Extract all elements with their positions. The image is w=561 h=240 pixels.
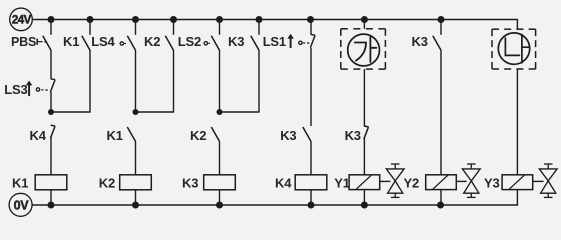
svg-text:24V: 24V bbox=[12, 15, 32, 27]
node G1 junction on 24V rail bbox=[307, 16, 314, 23]
limit switch LS2 NO contact bbox=[211, 36, 219, 51]
limit switch LS3 actuation arrow bbox=[26, 81, 32, 86]
relay contact K2 NO bbox=[211, 127, 219, 142]
cylinder NA indicator circle bbox=[498, 33, 529, 64]
wire K1 contact to K2 coil bbox=[135, 142, 137, 175]
wire GA box to K3 contact bbox=[363, 69, 365, 126]
wire NA box to Y3 solenoid bbox=[516, 69, 518, 175]
limit switch LS1 actuation arrow bbox=[287, 34, 293, 39]
cylinder NA hangul glyph bbox=[505, 35, 529, 63]
wire K2 coil to 0V rail bbox=[135, 190, 137, 205]
wire rail to LS2 bbox=[219, 20, 221, 35]
LS3 roller actuator circle bbox=[36, 88, 39, 91]
wire K4 coil to 0V rail bbox=[310, 190, 312, 205]
svg-text:Y2: Y2 bbox=[404, 175, 420, 190]
cylinder GA dashed enclosure bbox=[341, 28, 348, 30]
wire K1 contact down to join bbox=[89, 51, 91, 113]
node I1 junction on 24V rail bbox=[438, 16, 445, 23]
LS3 actuator dashed link bbox=[41, 89, 49, 91]
relay coil K2 bbox=[120, 175, 152, 190]
node D1 junction on 24V rail bbox=[170, 16, 177, 23]
node H2 junction on 0V rail bbox=[361, 202, 368, 209]
relay coil K1 bbox=[35, 175, 67, 190]
relay contact K3 NO seal-in bbox=[251, 36, 259, 51]
wire rail to K3 contact bbox=[440, 20, 442, 35]
wire Y2 to valve symbol bbox=[456, 180, 466, 182]
node J2 junction bbox=[133, 109, 139, 115]
svg-text:LS1: LS1 bbox=[263, 34, 286, 49]
wire Y3 to valve symbol bbox=[533, 180, 544, 182]
relay coil K4 bbox=[295, 175, 327, 190]
node J1 junction bbox=[48, 109, 54, 115]
svg-text:0V: 0V bbox=[14, 198, 30, 212]
wire Y1 to valve symbol bbox=[380, 180, 390, 182]
relay contact K1 NO seal-in bbox=[82, 36, 90, 51]
relay contact K2 NO seal-in bbox=[165, 36, 173, 51]
node F1 junction on 24V rail bbox=[256, 16, 263, 23]
relay contact K3 NO bbox=[303, 127, 311, 142]
limit switch LS4 NO contact bbox=[127, 36, 135, 51]
node I2 junction on 0V rail bbox=[437, 202, 444, 209]
node C2 junction on 0V rail bbox=[132, 202, 139, 209]
solenoid coil Y1 bbox=[349, 175, 380, 190]
svg-text:K2: K2 bbox=[99, 176, 115, 191]
wire rail to PBS bbox=[50, 20, 52, 35]
node A2 junction on 0V rail bbox=[48, 202, 55, 209]
24V supply terminal bbox=[10, 8, 33, 31]
solenoid coil Y3 bbox=[502, 175, 533, 190]
pneumatic valve symbol at Y2 bbox=[467, 163, 476, 165]
wire rail drop to cylinder NA box bbox=[516, 20, 518, 30]
node B1 junction on 24V rail bbox=[87, 16, 94, 23]
wire K3 contact to Y1 solenoid bbox=[363, 139, 365, 175]
svg-text:K3: K3 bbox=[228, 34, 244, 49]
svg-text:K2: K2 bbox=[144, 34, 160, 49]
wire LS4 to node J2 bbox=[135, 51, 137, 112]
svg-text:K3: K3 bbox=[280, 128, 296, 143]
svg-text:K1: K1 bbox=[107, 128, 123, 143]
pneumatic valve symbol at Y3 bbox=[544, 163, 553, 165]
relay contact K1 NO bbox=[127, 127, 135, 142]
svg-text:K3: K3 bbox=[412, 34, 428, 49]
wire K3 contact to Y2 solenoid bbox=[440, 51, 442, 175]
LS1 roller actuator circle bbox=[299, 41, 302, 44]
relay coil K3 bbox=[204, 175, 236, 190]
node J3 junction bbox=[217, 109, 223, 115]
relay contact K4 NC bbox=[51, 124, 56, 127]
LS4 roller actuator circle bbox=[120, 42, 123, 45]
node G2 junction on 0V rail bbox=[308, 202, 315, 209]
limit switch LS1 NC contact bbox=[311, 33, 316, 36]
svg-text:K2: K2 bbox=[190, 128, 206, 143]
svg-text:LS3: LS3 bbox=[4, 82, 27, 97]
wire K3 coil to 0V rail bbox=[219, 190, 221, 205]
bottom rail 0V bus wire bbox=[32, 204, 518, 206]
wire LS3 to node J1 bbox=[50, 92, 52, 112]
svg-text:LS2: LS2 bbox=[178, 34, 201, 49]
wire rail to LS4 bbox=[135, 20, 137, 35]
cylinder GA indicator circle bbox=[348, 34, 380, 66]
wire K2 contact to K3 coil bbox=[219, 142, 221, 175]
wire J3 to K3-contact branch bbox=[220, 111, 260, 113]
wire Y3 to 0V rail bbox=[516, 190, 518, 205]
solenoid coil Y2 bbox=[426, 175, 457, 190]
wire rail to K2 contact bbox=[173, 20, 175, 35]
wire LS1 to K3 contact bbox=[310, 48, 312, 126]
svg-text:K4: K4 bbox=[30, 128, 47, 143]
svg-text:Y1: Y1 bbox=[334, 176, 350, 191]
wire rail to K3 contact bbox=[258, 20, 260, 35]
0V supply terminal bbox=[9, 193, 32, 216]
LS1 actuator dashed link bbox=[303, 42, 310, 44]
limit switch LS3 NC contact bbox=[51, 78, 56, 81]
cylinder GA hangul glyph bbox=[355, 37, 377, 62]
node C1 junction on 24V rail bbox=[132, 16, 139, 23]
node E1 junction on 24V rail bbox=[216, 16, 223, 23]
relay contact K3 NC bbox=[364, 125, 369, 128]
wire rail to LS1 bbox=[310, 20, 312, 35]
svg-text:K4: K4 bbox=[275, 176, 292, 191]
wire PBS to LS3 bbox=[50, 51, 52, 79]
svg-text:PBS: PBS bbox=[11, 35, 36, 49]
wire K3 contact to K4 coil bbox=[310, 142, 312, 175]
relay contact K3 NO right bbox=[433, 36, 441, 51]
svg-text:Y3: Y3 bbox=[484, 175, 500, 190]
wire rail to cylinder GA box bbox=[363, 20, 365, 29]
node A1 junction on 24V rail bbox=[48, 16, 55, 23]
wire Y1 to 0V rail bbox=[363, 190, 365, 205]
wire Y2 to 0V rail bbox=[440, 190, 442, 205]
wire rail to K1 contact bbox=[89, 20, 91, 35]
cylinder NA dashed enclosure bbox=[492, 28, 499, 30]
svg-text:K3: K3 bbox=[345, 128, 361, 143]
wire K2 contact down to join bbox=[173, 51, 175, 113]
pushbutton PBS NO contact bbox=[37, 36, 51, 51]
wire K4 to K1 coil bbox=[50, 137, 52, 174]
node E2 junction on 0V rail bbox=[216, 202, 223, 209]
node H1 junction on 24V rail bbox=[361, 16, 368, 23]
svg-text:K1: K1 bbox=[63, 34, 79, 49]
svg-text:K3: K3 bbox=[182, 176, 198, 191]
wire K3 contact down to join bbox=[258, 51, 260, 113]
top rail 24V bus wire bbox=[32, 19, 518, 21]
LS2 actuator dashed link bbox=[208, 42, 211, 44]
pneumatic valve symbol at Y1 bbox=[391, 163, 400, 165]
LS4 actuator dashed link bbox=[124, 43, 127, 45]
LS2 roller actuator circle bbox=[204, 42, 207, 45]
svg-text:LS4: LS4 bbox=[91, 34, 115, 49]
wire J2 to K2-contact branch bbox=[136, 111, 174, 113]
wire LS2 to node J3 bbox=[219, 51, 221, 112]
wire J1 to K1-contact branch bbox=[51, 111, 90, 113]
svg-text:K1: K1 bbox=[12, 176, 28, 191]
wire K1 coil to 0V rail bbox=[50, 190, 52, 205]
